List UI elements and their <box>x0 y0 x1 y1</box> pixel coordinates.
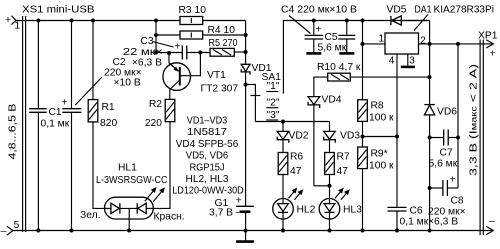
connector XS1 label <box>22 5 95 16</box>
svg-text:C1: C1 <box>49 107 62 118</box>
svg-text:5,6 мк: 5,6 мк <box>318 43 347 54</box>
svg-text:100 к: 100 к <box>369 113 394 124</box>
node C3/R5/base <box>198 51 202 55</box>
svg-text:C2: C2 <box>113 57 126 68</box>
svg-text:LD120-0WW-30D: LD120-0WW-30D <box>172 186 244 197</box>
svg-text:Красн.: Красн. <box>154 212 185 223</box>
svg-text:2: 2 <box>420 36 426 47</box>
resistor R6 47 <box>278 152 303 199</box>
svg-text:+: + <box>490 49 496 60</box>
svg-text:R6: R6 <box>290 152 303 163</box>
node R4 right <box>244 33 248 37</box>
label 4,8...6,5 V (rotated) <box>8 103 19 159</box>
svg-text:1: 1 <box>14 20 20 31</box>
svg-text:HL3: HL3 <box>343 205 362 216</box>
HL2 emission arrows <box>289 188 304 200</box>
node DA1 pin1 tap <box>361 42 365 46</box>
connector XP1 body <box>478 31 498 236</box>
svg-text:XS1 mini-USB: XS1 mini-USB <box>22 5 95 16</box>
svg-text:3,7 В: 3,7 В <box>209 208 233 219</box>
node C1 top <box>36 19 40 23</box>
svg-text:47: 47 <box>337 166 349 177</box>
svg-text:R10 4,7 к: R10 4,7 к <box>317 62 361 73</box>
transistor VT1 GT2307 <box>163 53 239 100</box>
svg-text:+: + <box>175 42 181 53</box>
svg-text:"2": "2" <box>267 97 280 108</box>
capacitor C3 22uF with leader <box>123 36 210 69</box>
resistor R1 820 <box>88 21 117 130</box>
wire VD4 to HL3 node <box>314 185 330 187</box>
node HL1 cathode bottom <box>127 229 131 233</box>
svg-text:R1: R1 <box>102 102 115 113</box>
svg-text:0,1 мк: 0,1 мк <box>400 217 429 228</box>
HL3 emission arrows <box>335 188 350 200</box>
diode VD2 schottky <box>277 122 309 153</box>
diode VD6 <box>424 105 457 231</box>
svg-text:VD5: VD5 <box>387 5 407 16</box>
svg-text:47: 47 <box>290 166 302 177</box>
svg-text:R4 10: R4 10 <box>208 25 236 36</box>
wire feedback to pin4 line <box>363 136 398 138</box>
svg-text:3: 3 <box>409 56 415 67</box>
svg-text:VD3: VD3 <box>340 131 360 142</box>
capacitor C5 <box>318 21 356 54</box>
node C6 bottom <box>395 229 399 233</box>
wire VD5 corner down to pin2 node <box>429 21 431 44</box>
wire top +5V rail <box>16 20 180 22</box>
resistor R8 100k <box>358 100 394 147</box>
svg-text:5,6 мк: 5,6 мк <box>429 159 458 170</box>
svg-text:820: 820 <box>100 118 117 129</box>
svg-text:R3 10: R3 10 <box>179 5 207 16</box>
connector XP1 plus pin arrow <box>486 40 495 60</box>
svg-text:×6,3 В: ×6,3 В <box>132 58 162 69</box>
capacitor C2 <box>62 21 82 231</box>
connector XS1 body (double lines) <box>23 16 26 232</box>
diode VD1 schottky <box>241 63 272 206</box>
resistor R10 4.7k <box>314 62 430 97</box>
svg-text:1: 1 <box>378 34 384 45</box>
capacitor C4 <box>305 21 324 53</box>
wire bottom common rail <box>13 230 493 232</box>
svg-text:+: + <box>316 25 322 36</box>
DA1 pin 3 with ground bar <box>401 54 415 67</box>
svg-text:C8: C8 <box>451 196 464 207</box>
svg-text:4: 4 <box>389 56 395 67</box>
svg-text:HL2, HL3: HL2, HL3 <box>186 174 229 185</box>
label parts list <box>172 116 244 197</box>
svg-text:HL1: HL1 <box>118 163 137 174</box>
battery G1 <box>209 196 254 231</box>
svg-text:+: + <box>62 98 68 109</box>
wire branch x156 <box>155 21 157 53</box>
node C7 left <box>428 136 432 140</box>
HL1 emission arrows <box>145 187 165 202</box>
label C4 with leader <box>281 5 357 34</box>
resistor R9* 100k <box>358 147 394 231</box>
svg-text:4,8...6,5 В: 4,8...6,5 В <box>8 103 19 159</box>
svg-text:5: 5 <box>14 220 20 231</box>
svg-text:VD6: VD6 <box>437 107 457 118</box>
ground bar under G1 <box>236 231 254 242</box>
svg-text:VD2: VD2 <box>289 131 309 142</box>
LED HL3 <box>319 199 362 231</box>
label 3,3V Imax (rotated) <box>469 64 480 176</box>
svg-text:R7: R7 <box>337 152 350 163</box>
node C5 top <box>345 19 349 23</box>
svg-text:+: + <box>5 15 11 26</box>
node VD4/R7/HL3 <box>328 184 332 188</box>
node R9 bottom <box>361 229 365 233</box>
capacitor C1 <box>29 21 70 231</box>
node HL3 bottom <box>328 229 332 233</box>
svg-text:RGP15J: RGP15J <box>190 162 225 173</box>
svg-text:VD4: VD4 <box>322 95 342 106</box>
node pin4 feedback junction <box>395 135 399 139</box>
node pin2/VD5 <box>428 42 432 46</box>
svg-text:VD4 SFPB-56: VD4 SFPB-56 <box>176 139 239 150</box>
wire SA1 wiper to LED row <box>255 121 329 123</box>
svg-text:DA1: DA1 <box>415 5 432 16</box>
svg-text:Зел.: Зел. <box>80 210 100 221</box>
label C2 value with leader <box>75 57 141 105</box>
diode VD4 schottky <box>308 95 342 186</box>
svg-text:–: – <box>489 216 495 227</box>
IC DA1 KIA278R33Pi <box>385 5 494 55</box>
svg-text:220: 220 <box>145 118 162 129</box>
wire R3 corner down <box>245 21 247 65</box>
node R1 top <box>91 19 95 23</box>
svg-text:+: + <box>236 196 242 207</box>
node LED row VD2 <box>281 120 285 124</box>
svg-text:C4 220 мк×10 В: C4 220 мк×10 В <box>281 5 357 16</box>
node R10 right at VD6 line <box>428 75 432 79</box>
node R8 branch top <box>361 19 365 23</box>
wire R1 to HL1 left <box>93 122 105 208</box>
diode VD5 <box>387 5 430 26</box>
svg-text:VT1: VT1 <box>207 70 226 81</box>
wire R8 branch from rail <box>362 21 364 100</box>
node VD6 line bottom <box>428 229 432 233</box>
svg-text:"1": "1" <box>267 81 280 92</box>
node C2 bottom <box>70 229 74 233</box>
switch SA1 <box>246 72 282 122</box>
label Zel (green) <box>80 210 100 221</box>
svg-text:C6: C6 <box>410 206 423 217</box>
LED HL2 <box>273 199 316 231</box>
wire R2 to HL1 right <box>153 122 170 209</box>
svg-text:ГТ2 307: ГТ2 307 <box>201 84 239 95</box>
DA1 pin 4 <box>389 54 397 137</box>
diode VD3 schottky <box>324 122 361 153</box>
wire pin2 node down <box>429 44 431 105</box>
svg-text:×6,3 В: ×6,3 В <box>428 217 458 228</box>
svg-text:L-3WSRSGW-CC: L-3WSRSGW-CC <box>96 175 168 186</box>
DA1 pin 2 output wire <box>419 36 494 47</box>
svg-text:R2: R2 <box>149 99 162 110</box>
node output branch top <box>456 42 460 46</box>
node SA1 pole <box>244 83 248 87</box>
svg-text:0,1 мк: 0,1 мк <box>41 119 70 130</box>
node VT1 emitter <box>167 51 171 55</box>
node C7 right <box>456 136 460 140</box>
node R8/R9 junction <box>361 135 365 139</box>
node G1 bottom <box>244 229 248 233</box>
svg-text:100 к: 100 к <box>369 161 394 172</box>
node x156 C3 <box>154 51 158 55</box>
LED HL1 dual L-3WSRSGW-CC <box>105 197 154 230</box>
svg-text:XP1: XP1 <box>478 31 498 42</box>
svg-text:×10 В: ×10 В <box>114 78 141 89</box>
svg-text:–: – <box>236 207 242 218</box>
resistor R5 270 <box>209 38 246 56</box>
ground bar under C5 <box>339 52 354 55</box>
node HL2 bottom <box>281 229 285 233</box>
node C8 left <box>428 186 432 190</box>
node x156 R4 <box>154 33 158 37</box>
capacitor C8 <box>428 175 466 228</box>
svg-text:3,3 В (Iмакс < 2 А): 3,3 В (Iмакс < 2 А) <box>469 64 480 176</box>
svg-text:C7: C7 <box>440 148 453 159</box>
svg-text:C3: C3 <box>140 36 153 47</box>
svg-text:1N5817: 1N5817 <box>187 127 227 138</box>
connector XS1 pin 5 arrow and - <box>1 220 20 237</box>
connector XS1 pin 1 arrow and + <box>5 15 20 31</box>
svg-text:"3": "3" <box>267 110 280 121</box>
svg-text:R5 270: R5 270 <box>209 38 238 49</box>
node x156 top <box>154 19 158 23</box>
node C1 bottom <box>36 229 40 233</box>
connector XP1 minus pin arrow <box>486 216 495 235</box>
node R5 right <box>244 50 248 54</box>
svg-text:VD1–VD3: VD1–VD3 <box>187 116 228 127</box>
svg-text:+: + <box>450 175 456 186</box>
wire output right branch <box>457 44 459 188</box>
wire SA1 contact 1 up to charge rail <box>283 21 429 94</box>
capacitor C6 <box>388 137 429 231</box>
svg-text:C5: C5 <box>325 32 338 43</box>
wire to DA1 pin 1 <box>363 34 386 45</box>
svg-text:R9*: R9* <box>371 149 388 160</box>
ground bar under C4 <box>306 52 321 55</box>
svg-text:KIA278R33Pi: KIA278R33Pi <box>434 5 495 16</box>
resistor R3 10 <box>179 5 246 25</box>
label HL1 <box>96 163 168 187</box>
svg-text:–: – <box>1 226 7 237</box>
node C4 top <box>312 19 316 23</box>
svg-text:R8: R8 <box>371 101 384 112</box>
resistor R4 10 <box>156 25 246 39</box>
resistor R7 47 <box>325 152 350 199</box>
svg-text:VD5, VD6: VD5, VD6 <box>186 151 229 162</box>
svg-text:HL2: HL2 <box>297 205 316 216</box>
label Krasn (red) <box>154 212 185 223</box>
resistor R2 220 <box>145 99 175 129</box>
node C2 top <box>70 19 74 23</box>
capacitor C7 <box>429 130 459 170</box>
